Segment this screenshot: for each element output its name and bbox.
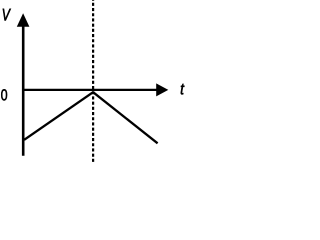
label t bbox=[181, 84, 185, 94]
V axis (vertical axis line) bbox=[22, 24, 25, 156]
t axis (horizontal axis line) bbox=[22, 89, 157, 91]
t axis arrowhead bbox=[156, 83, 168, 96]
label V bbox=[3, 9, 11, 21]
V axis arrowhead bbox=[17, 13, 30, 26]
dashed vertical line bbox=[92, 0, 94, 162]
label 0 bbox=[1, 89, 7, 100]
waveform rising segment bbox=[24, 92, 93, 140]
waveform falling segment bbox=[93, 92, 158, 143]
